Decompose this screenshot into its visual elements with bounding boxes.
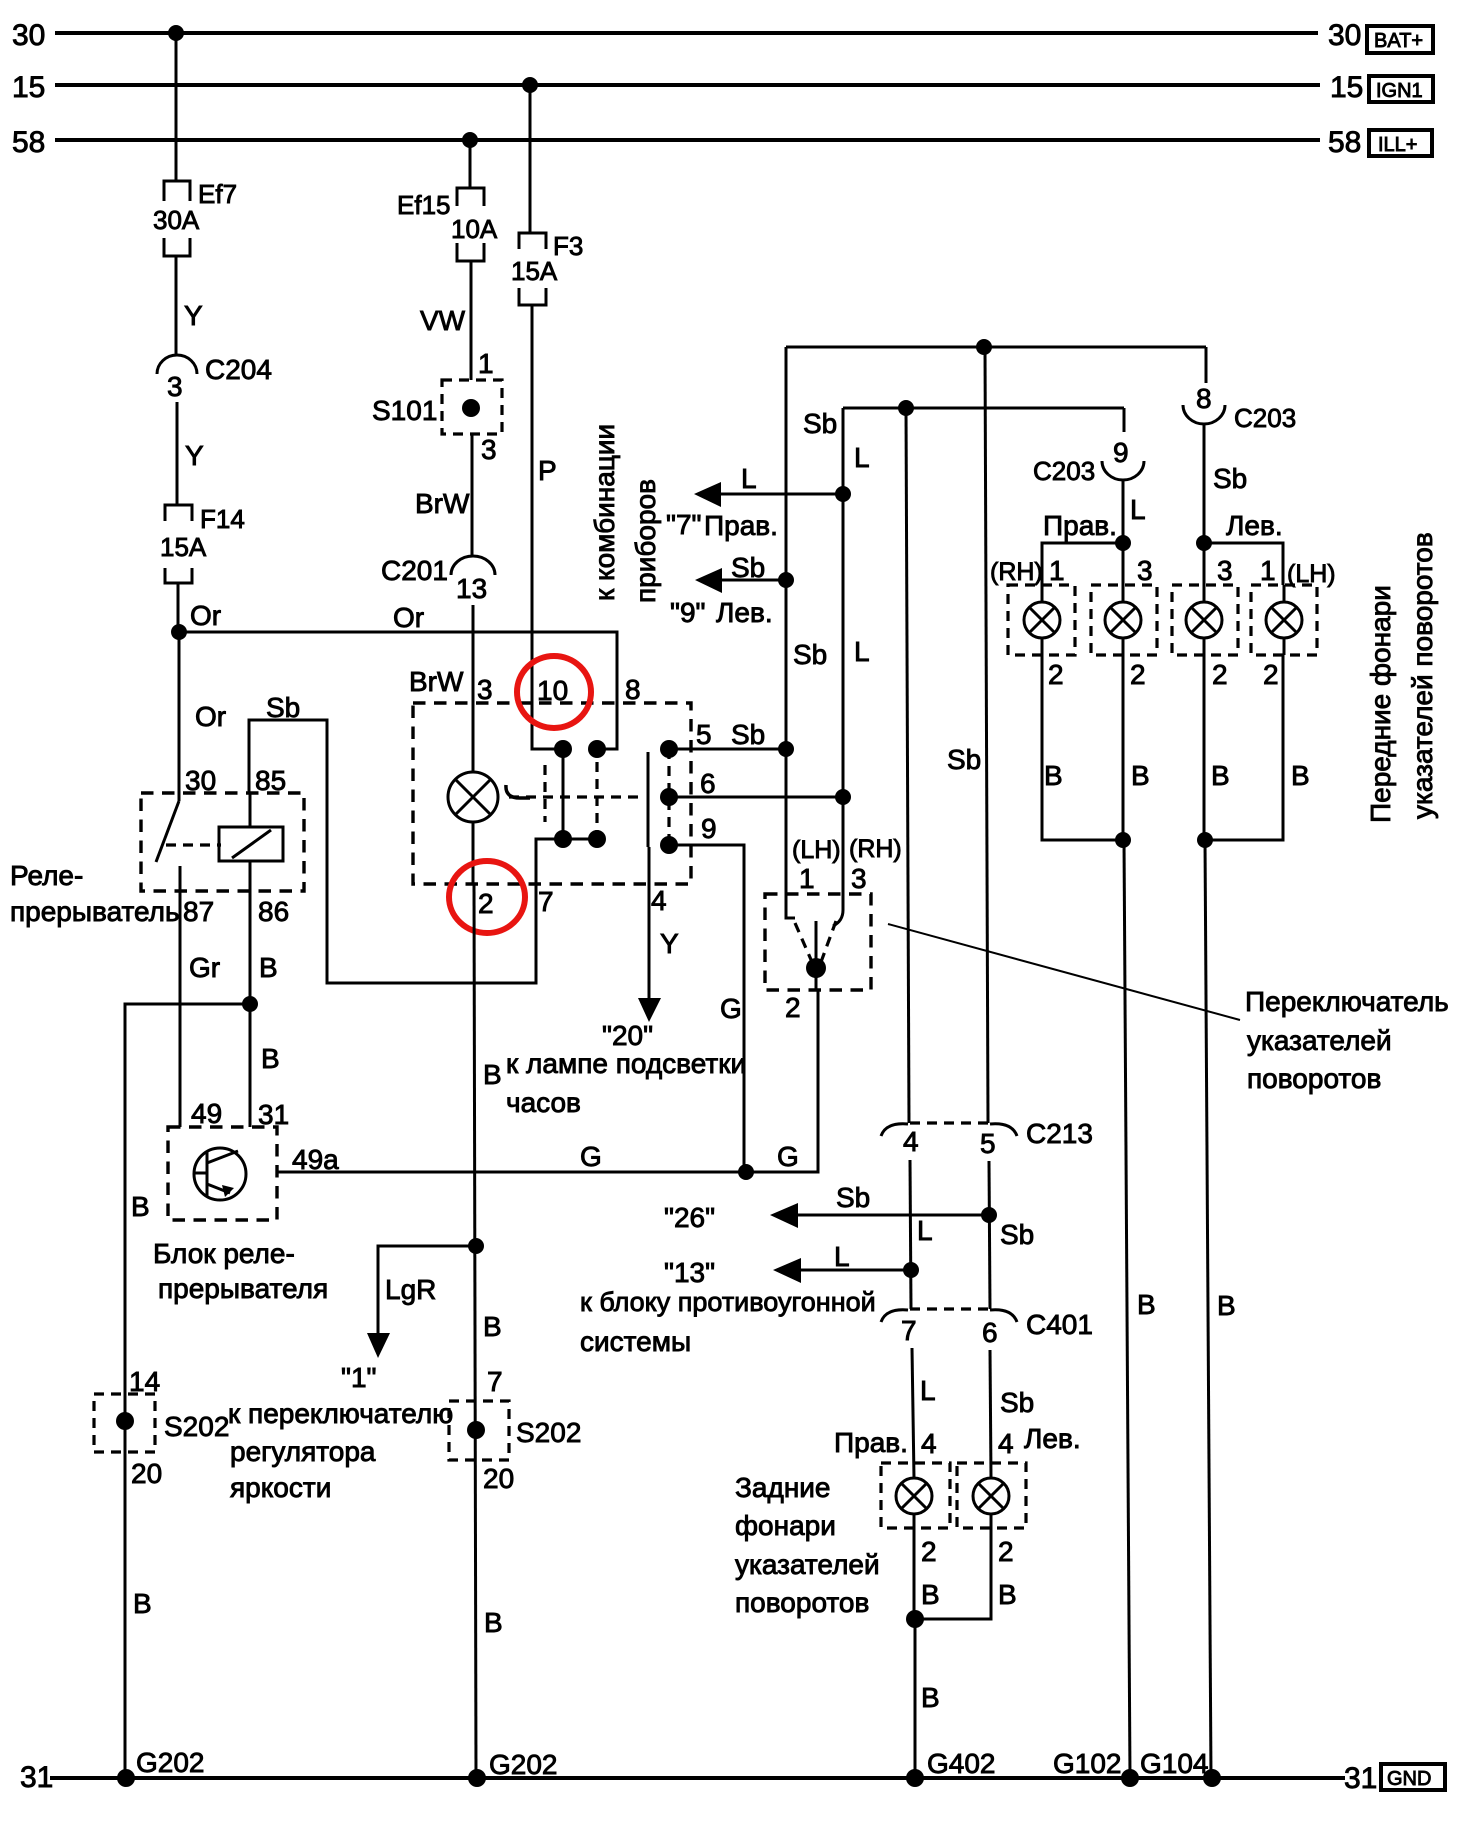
connector C204 pin 3 (157, 354, 272, 402)
svg-text:10A: 10A (451, 214, 498, 244)
svg-text:8: 8 (625, 674, 641, 705)
wire from bus 30 down to fuse Ef7 (175, 33, 178, 181)
svg-text:5: 5 (696, 719, 712, 750)
ground G202 middle (468, 1749, 558, 1787)
front lamp B ground labels (1044, 760, 1310, 791)
svg-text:B: B (921, 1682, 940, 1713)
wire L top line down to connector C203 pin 9 (1123, 408, 1126, 432)
svg-text:B: B (1217, 1290, 1236, 1321)
svg-text:приборов: приборов (630, 479, 661, 603)
svg-text:B: B (483, 1059, 502, 1090)
fuse F3 15A (511, 231, 583, 305)
svg-text:L: L (920, 1375, 936, 1406)
svg-text:58: 58 (12, 126, 45, 159)
node front left B join (1197, 832, 1213, 848)
ILL+ terminal box (1369, 130, 1432, 156)
svg-text:к блоку противоугонной: к блоку противоугонной (580, 1287, 876, 1317)
node on bus 30 at x175 (168, 25, 184, 41)
node pin10 contact bottom (554, 830, 572, 848)
node L at 7-arrow (835, 486, 851, 502)
node Sb at 26-arrow (981, 1207, 997, 1223)
svg-text:49: 49 (191, 1098, 222, 1129)
S202 splice right (pin 7/20) (449, 1366, 581, 1494)
svg-text:30: 30 (12, 19, 45, 52)
rear lamp pin 4 labels and captions (834, 1423, 1081, 1459)
svg-text:3: 3 (477, 674, 493, 705)
svg-text:указателей: указателей (735, 1549, 880, 1580)
svg-text:"1": "1" (341, 1362, 376, 1393)
svg-text:3: 3 (481, 434, 497, 465)
svg-text:3: 3 (851, 863, 867, 894)
svg-text:указателей поворотов: указателей поворотов (1407, 532, 1438, 819)
wire LgR arrow to dimmer switch (341, 1246, 476, 1393)
svg-text:Sb: Sb (1000, 1387, 1034, 1418)
relay coil K1 (219, 793, 283, 891)
svg-text:Прав.: Прав. (834, 1427, 908, 1458)
node pin 6 contact (660, 788, 678, 806)
hazard switch dashed box (413, 703, 691, 884)
relay switch contact blade (156, 793, 179, 862)
node pin 9 contact (660, 836, 678, 854)
wire B hazard pin 2 down (BrW continues as B) (474, 884, 503, 1778)
svg-text:C204: C204 (205, 354, 272, 385)
svg-text:ILL+: ILL+ (1378, 134, 1417, 156)
svg-text:2: 2 (478, 888, 494, 919)
front turn lamp RH outer bulb (1024, 585, 1060, 655)
wire front left lamps feed split (1204, 543, 1283, 585)
BAT+ terminal box (1367, 26, 1433, 53)
wire Sb relay pin 85 up-over-down to hazard box pin 7 (249, 692, 536, 983)
arrow Sb to instrument cluster "9" Лев. (670, 552, 786, 628)
connector C203 pin 9 (1033, 437, 1144, 486)
svg-text:Прав.: Прав. (1043, 510, 1117, 541)
svg-text:G104: G104 (1140, 1748, 1209, 1779)
wire BrW splice S101 to connector C201 (415, 434, 472, 557)
svg-text:G102: G102 (1053, 1748, 1122, 1779)
svg-text:G: G (580, 1141, 602, 1172)
node Sb at 9-arrow (778, 572, 794, 588)
fuse Ef7 30A (153, 179, 237, 256)
svg-text:указателей: указателей (1247, 1025, 1392, 1056)
svg-text:1: 1 (478, 348, 494, 379)
svg-text:B: B (1137, 1289, 1156, 1320)
wire Sb hazard pin 5 to Sb vertical (669, 719, 786, 750)
wire Gr relay pin 87 down to flasher block pin 49 (180, 866, 220, 1127)
svg-text:B: B (1211, 760, 1230, 791)
wire Or junction right to hazard box pin 8 (179, 602, 617, 749)
arrow Sb "26" to anti-theft unit (664, 1182, 989, 1233)
node B junction at relay 86 wire (242, 996, 258, 1012)
svg-text:4: 4 (903, 1126, 919, 1157)
wire L hazard pin 6 to L vertical (669, 768, 843, 799)
bus line 58 (ILL+) (12, 126, 1361, 159)
svg-text:30: 30 (185, 765, 216, 796)
GND terminal box (1381, 1764, 1445, 1790)
svg-text:Or: Or (195, 701, 226, 732)
front turn lamp LH outer dashed box (1251, 585, 1317, 655)
rear turn lamp left dashed box (957, 1463, 1026, 1528)
arrow L "13" to anti-theft unit (664, 1241, 911, 1288)
svg-text:VW: VW (420, 305, 466, 336)
svg-text:G: G (720, 993, 742, 1024)
wire B front left lamps join (1206, 655, 1283, 840)
front turn lamp RH outer dashed box (1008, 585, 1075, 655)
svg-text:2: 2 (785, 992, 801, 1023)
front turn lamp RH inner dashed box (1091, 585, 1157, 655)
node pin 5 contact (660, 740, 678, 758)
svg-text:S202: S202 (164, 1411, 229, 1442)
svg-text:яркости: яркости (230, 1472, 331, 1503)
wire Sb top distribution line (786, 347, 1206, 439)
node L at pin6 line (835, 789, 851, 805)
vertical caption Передние фонари указателей поворотов (1365, 532, 1438, 823)
svg-text:1: 1 (799, 863, 815, 894)
wire B front right lamps join (1042, 655, 1122, 840)
wire L connector C401 down to rear right lamp pin 4 (912, 1348, 936, 1478)
bus line 30 (BAT+) (12, 19, 1361, 52)
svg-text:L: L (741, 463, 757, 494)
svg-text:Передние фонари: Передние фонари (1365, 585, 1396, 823)
front lamp pin labels (990, 555, 1336, 588)
node L top line to middle L vertical (898, 400, 914, 416)
svg-text:L: L (1130, 494, 1146, 525)
node on bus 58 at x470 (462, 132, 478, 148)
wire L connector C213 to connector C401 pin 7 (910, 1160, 933, 1309)
arrow L to instrument cluster "7" Прав. (666, 463, 843, 541)
svg-text:Sb: Sb (1213, 463, 1247, 494)
svg-text:14: 14 (129, 1366, 160, 1397)
wire G 49a output to the right (277, 990, 818, 1172)
svg-text:Задние: Задние (735, 1472, 831, 1503)
S202 splice left (pin 14/20) (94, 1366, 229, 1489)
wire B front right lamps down to ground G102 (1124, 840, 1156, 1778)
svg-text:30: 30 (1328, 19, 1361, 52)
svg-text:49a: 49a (292, 1144, 339, 1175)
svg-text:BrW: BrW (409, 666, 464, 697)
svg-text:20: 20 (483, 1463, 514, 1494)
wire Sb middle vertical down to connector C213 pin 5 (947, 347, 988, 1123)
flasher block (Блок реле-прерывателя) dashed box (168, 1127, 277, 1220)
svg-text:6: 6 (700, 768, 716, 799)
svg-text:3: 3 (167, 371, 183, 402)
svg-text:S101: S101 (372, 395, 437, 426)
svg-text:Gr: Gr (189, 952, 220, 983)
wire L middle vertical down to connector C213 pin 4 (906, 408, 909, 1123)
svg-text:B: B (131, 1191, 150, 1222)
svg-text:1: 1 (1049, 555, 1065, 586)
svg-text:"13": "13" (664, 1257, 715, 1288)
wire G hazard pin 9 down to 49a line (669, 813, 744, 1172)
rear lamp pin 2 labels (921, 1536, 1014, 1567)
wire B relay pin 86 down to flasher block pin 31 (250, 891, 280, 1127)
hazard contact dashed strokes left pair (545, 762, 597, 836)
wire from bus 58 down to fuse Ef15 (469, 140, 472, 188)
fuse Ef15 10A (397, 188, 498, 261)
svg-text:системы: системы (580, 1326, 691, 1357)
node rear lamps B join (906, 1610, 924, 1628)
wire Or fuse F14 to junction (178, 583, 221, 632)
node Sb at pin5 line (778, 741, 794, 757)
svg-text:P: P (538, 455, 557, 486)
node pin10 contact top (554, 740, 572, 758)
svg-text:15A: 15A (160, 532, 207, 562)
wire P fuse F3 down to hazard box pin 10 (532, 305, 563, 749)
node turn switch common (806, 958, 826, 978)
rear lamp B labels (921, 1579, 1017, 1610)
rear turn lamp right dashed box (881, 1463, 950, 1528)
flasher block caption Блок реле-прерывателя (153, 1238, 328, 1304)
svg-text:B: B (1131, 760, 1150, 791)
svg-text:C401: C401 (1026, 1309, 1093, 1340)
LgR tap node on B wire (468, 1238, 484, 1254)
svg-text:Прав.: Прав. (704, 510, 778, 541)
svg-text:6: 6 (982, 1317, 998, 1348)
svg-text:7: 7 (901, 1315, 917, 1346)
svg-text:9: 9 (701, 813, 717, 844)
node G junction at x746 (738, 1164, 754, 1180)
svg-text:15: 15 (12, 71, 45, 104)
svg-text:Sb: Sb (1000, 1219, 1034, 1250)
svg-text:C203: C203 (1234, 403, 1296, 433)
vertical caption к комбинации приборов (589, 424, 661, 603)
wire L C203-9 down to front right lamps (1123, 479, 1146, 543)
svg-text:B: B (1291, 760, 1310, 791)
ground G402 (906, 1748, 996, 1787)
svg-text:L: L (854, 636, 870, 667)
svg-text:20: 20 (131, 1458, 162, 1489)
ground G104 (1140, 1748, 1221, 1787)
wire L top distribution line (843, 408, 1124, 473)
svg-text:B: B (133, 1588, 152, 1619)
node front right B join (1115, 832, 1131, 848)
wire Y fuse Ef7 to connector C204 (176, 256, 203, 356)
svg-text:BrW: BrW (415, 488, 470, 519)
wire B junction left and down to ground G202 (125, 1004, 250, 1778)
svg-text:87: 87 (183, 896, 214, 927)
hazard contact solid bar pins 10-7 (562, 749, 565, 839)
svg-text:Sb: Sb (266, 692, 300, 723)
connector C203 pin 8 (1183, 383, 1296, 433)
caption к переключателю регулятора яркости (228, 1398, 453, 1503)
svg-text:85: 85 (255, 765, 286, 796)
svg-text:5: 5 (980, 1128, 996, 1159)
relay caption Реле-прерыватель (10, 860, 180, 927)
svg-text:к лампе подсветки: к лампе подсветки (506, 1048, 746, 1079)
svg-text:C201: C201 (381, 555, 448, 586)
svg-text:фонари: фонари (735, 1510, 836, 1541)
svg-text:13: 13 (456, 573, 487, 604)
svg-text:10: 10 (537, 675, 568, 706)
svg-text:"26": "26" (664, 1202, 715, 1233)
svg-text:B: B (921, 1579, 940, 1610)
turn switch movable contact (795, 921, 836, 990)
wire B front left lamps down to ground G104 (1205, 840, 1236, 1778)
svg-text:"7": "7" (666, 509, 701, 540)
svg-text:30A: 30A (153, 205, 200, 235)
svg-text:86: 86 (258, 896, 289, 927)
svg-text:7: 7 (487, 1366, 503, 1397)
svg-text:Sb: Sb (731, 719, 765, 750)
hazard movable contact bar right (647, 752, 650, 847)
svg-text:(LH): (LH) (792, 836, 841, 864)
svg-text:C213: C213 (1026, 1118, 1093, 1149)
svg-text:Y: Y (660, 928, 679, 959)
IGN1 terminal box (1369, 76, 1433, 102)
svg-text:LgR: LgR (385, 1274, 436, 1305)
svg-text:IGN1: IGN1 (1376, 80, 1423, 102)
ground G202 left (117, 1747, 205, 1787)
wire BrW connector C201 down to hazard box pin 3 (409, 605, 473, 772)
svg-text:B: B (259, 952, 278, 983)
svg-text:G202: G202 (136, 1747, 205, 1778)
svg-text:1: 1 (1260, 555, 1276, 586)
node front right lamp split (1115, 535, 1131, 551)
svg-text:"20": "20" (602, 1020, 653, 1051)
svg-text:L: L (834, 1241, 850, 1272)
callout line to switch caption (888, 924, 1240, 1020)
svg-text:Лев.: Лев. (716, 597, 773, 628)
svg-text:2: 2 (998, 1536, 1014, 1567)
svg-text:Y: Y (184, 300, 203, 331)
svg-text:Or: Or (190, 600, 221, 631)
wire front right lamps feed split (1042, 543, 1123, 585)
svg-text:GND: GND (1387, 1768, 1431, 1790)
node pin8 contact bottom (588, 830, 606, 848)
svg-text:Ef15: Ef15 (397, 190, 451, 220)
svg-text:L: L (854, 442, 870, 473)
wire contact bottoms to pin 7 (536, 839, 597, 884)
wire Or junction down to relay pin 30 (179, 632, 226, 793)
svg-text:Переключатель: Переключатель (1245, 986, 1449, 1017)
svg-text:Sb: Sb (836, 1182, 870, 1213)
svg-text:C203: C203 (1033, 456, 1095, 486)
svg-text:(RH): (RH) (990, 558, 1043, 586)
svg-text:G202: G202 (489, 1749, 558, 1780)
red circle highlight around pin 10 (517, 656, 591, 728)
connector C213 (pins 4/5) (881, 1118, 1093, 1159)
svg-text:Sb: Sb (793, 639, 827, 670)
node Or junction (171, 624, 187, 640)
bus line 31 (GND) (20, 1761, 1377, 1795)
svg-text:15A: 15A (511, 256, 558, 286)
caption Переключатель указателей поворотов (1245, 986, 1449, 1094)
red circle highlight around pin 2 (449, 861, 525, 933)
hazard switch actuator hook (506, 785, 530, 798)
wire Sb vertical down to turn switch pin 1 (786, 347, 827, 918)
svg-text:G402: G402 (927, 1748, 996, 1779)
caption Задние фонари указателей поворотов (735, 1472, 880, 1618)
front lamp pin 2 labels (1048, 659, 1279, 690)
svg-text:2: 2 (1048, 659, 1064, 690)
svg-text:2: 2 (1263, 659, 1279, 690)
svg-text:к комбинации: к комбинации (589, 424, 620, 601)
svg-text:G: G (777, 1141, 799, 1172)
svg-text:Sb: Sb (803, 408, 837, 439)
hazard indicator lamp (448, 703, 498, 884)
wire L vertical down to turn switch pin 3 (833, 408, 870, 926)
front turn lamp LH inner bulb (1186, 585, 1222, 655)
caption к лампе подсветки часов (506, 1048, 746, 1118)
flasher block transistor symbol (194, 1148, 246, 1200)
turn switch pin labels (LH) 1 / 3 (RH) (792, 835, 902, 894)
relay (Реле-прерыватель) dashed box (141, 793, 304, 891)
svg-text:2: 2 (921, 1536, 937, 1567)
rear turn lamp left bulb (916, 1478, 1009, 1619)
wire VW fuse Ef15 to splice S101 (420, 261, 471, 380)
front turn lamp LH inner dashed box (1172, 585, 1238, 655)
svg-text:прерыватель: прерыватель (10, 896, 180, 927)
wire Sb C203-8 down to front left lamps (1204, 423, 1247, 543)
svg-text:2: 2 (1130, 659, 1146, 690)
svg-text:часов: часов (506, 1087, 581, 1118)
svg-text:31: 31 (1344, 1762, 1377, 1795)
svg-text:Блок реле-: Блок реле- (153, 1238, 295, 1269)
fuse F14 15A (160, 504, 245, 583)
svg-text:BAT+: BAT+ (1374, 30, 1423, 52)
connector C401 (pins 7/6) (881, 1309, 1093, 1348)
svg-text:B: B (484, 1607, 503, 1638)
svg-text:"9": "9" (670, 597, 705, 628)
wire from bus 15 down to fuse F3 (529, 85, 532, 233)
svg-text:B: B (1044, 760, 1063, 791)
svg-text:поворотов: поворотов (735, 1587, 869, 1618)
wire Sb top line down to connector C203 pin 8 (1205, 347, 1208, 383)
hazard switch actuator dashed link (509, 795, 645, 798)
svg-text:2: 2 (1212, 659, 1228, 690)
svg-text:4: 4 (998, 1428, 1014, 1459)
wire B rear lamps down to ground G402 (915, 1619, 940, 1778)
caption к блоку противоугонной системы (580, 1287, 876, 1357)
svg-text:58: 58 (1328, 126, 1361, 159)
svg-text:15: 15 (1330, 71, 1363, 104)
ground G102 (1053, 1748, 1139, 1787)
svg-text:Sb: Sb (731, 552, 765, 583)
svg-text:9: 9 (1113, 437, 1129, 468)
wire Y hazard pin 4 arrow to clock lamp (602, 847, 679, 1051)
node front left lamp split (1196, 535, 1212, 551)
svg-text:прерывателя: прерывателя (158, 1273, 328, 1304)
splice S101 (pins 1/3) (372, 348, 502, 465)
svg-text:к переключателю: к переключателю (228, 1398, 453, 1429)
front turn lamp RH inner bulb (1105, 585, 1141, 655)
svg-text:Реле-: Реле- (10, 860, 83, 891)
connector C201 pin 13 (381, 555, 495, 604)
svg-text:F14: F14 (200, 504, 245, 534)
bus line 15 (IGN1) (12, 71, 1363, 104)
node on bus 15 at x530 (522, 77, 538, 93)
svg-text:(RH): (RH) (849, 835, 902, 863)
wire Y connector C204 to fuse F14 (177, 402, 204, 505)
svg-text:8: 8 (1196, 383, 1212, 414)
dashed link between right contacts (667, 749, 670, 845)
svg-text:B: B (483, 1311, 502, 1342)
wire Sb connector C213 to connector C401 pin 6 (989, 1161, 1034, 1309)
turn signal switch dashed box (765, 894, 871, 990)
front turn lamp LH outer bulb (1266, 585, 1302, 655)
svg-text:B: B (998, 1579, 1017, 1610)
svg-text:поворотов: поворотов (1247, 1063, 1381, 1094)
svg-text:регулятора: регулятора (230, 1436, 376, 1467)
wire Sb connector C401 down to rear left lamp pin 4 (990, 1350, 1034, 1478)
svg-text:3: 3 (1137, 555, 1153, 586)
svg-text:L: L (917, 1215, 933, 1246)
svg-text:31: 31 (258, 1099, 289, 1130)
svg-text:Sb: Sb (947, 744, 981, 775)
svg-text:4: 4 (651, 885, 667, 916)
svg-text:3: 3 (1217, 555, 1233, 586)
svg-text:7: 7 (538, 886, 554, 917)
svg-text:Лев.: Лев. (1226, 510, 1283, 541)
